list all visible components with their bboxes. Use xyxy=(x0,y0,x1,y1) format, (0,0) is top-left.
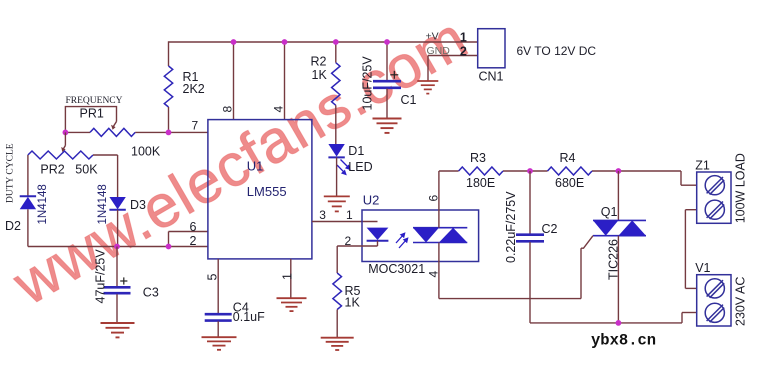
wire Z1 to V1 link xyxy=(685,209,696,211)
wire pin 5 xyxy=(217,259,219,313)
svg-text:ybx8.cn: ybx8.cn xyxy=(591,332,656,350)
wire R3 rail xyxy=(439,170,459,172)
wire U2 pin 6 xyxy=(438,171,440,228)
wire GND to CN1 xyxy=(428,55,478,57)
svg-text:D2: D2 xyxy=(5,219,21,233)
junction PR1 left xyxy=(63,130,69,136)
wire R5 to ground xyxy=(336,310,338,338)
svg-text:U2: U2 xyxy=(363,193,380,208)
svg-text:180E: 180E xyxy=(466,176,495,190)
wire D1 to ground xyxy=(336,157,338,196)
wire Q1 MT1 xyxy=(617,236,619,323)
svg-text:4: 4 xyxy=(272,106,286,113)
connector V1 xyxy=(695,261,747,326)
wire pin 7 node xyxy=(65,131,90,133)
triac Q1 TIC226 xyxy=(581,205,646,280)
junction C1/rail xyxy=(384,39,390,45)
junction C3/rail xyxy=(114,244,120,250)
U2 internal LED xyxy=(367,228,409,248)
svg-text:+V: +V xyxy=(426,31,439,43)
svg-text:47uF/25V: 47uF/25V xyxy=(94,249,108,304)
svg-text:PR1: PR1 xyxy=(80,107,104,121)
svg-text:0.22uF/275V: 0.22uF/275V xyxy=(504,191,518,263)
wire D3 to rail xyxy=(117,210,119,247)
svg-text:DUTY CYCLE: DUTY CYCLE xyxy=(6,143,16,203)
junction R2/rail xyxy=(333,39,339,45)
wire pin 8 xyxy=(233,41,235,119)
svg-text:230V AC: 230V AC xyxy=(733,277,747,326)
ground under C3 xyxy=(101,323,135,337)
svg-text:V1: V1 xyxy=(695,261,710,275)
resistor R4 xyxy=(548,151,593,190)
svg-text:8: 8 xyxy=(221,106,235,113)
svg-text:Q1: Q1 xyxy=(601,205,618,219)
wire pin 6 stub xyxy=(168,232,170,247)
potentiometer PR1 xyxy=(65,107,160,159)
junction pin7/R1 xyxy=(166,130,172,136)
wire PR2 right xyxy=(93,154,118,156)
wire U2 pin 2 xyxy=(377,241,379,246)
capacitor C3 xyxy=(94,247,159,324)
ground under GND pin xyxy=(417,81,438,94)
junction pin8/rail xyxy=(231,39,237,45)
wire pin 3 xyxy=(312,221,378,223)
svg-text:1N4148: 1N4148 xyxy=(37,184,49,224)
svg-text:R4: R4 xyxy=(560,151,576,165)
svg-text:1N4148: 1N4148 xyxy=(97,184,109,224)
wire +V top rail xyxy=(169,41,478,43)
svg-text:2: 2 xyxy=(460,44,467,58)
svg-text:1K: 1K xyxy=(345,296,361,310)
wire bottom rail xyxy=(530,322,682,324)
wire pin 1 xyxy=(290,259,292,298)
svg-text:5: 5 xyxy=(206,274,220,281)
svg-text:LED: LED xyxy=(348,160,372,174)
svg-text:680E: 680E xyxy=(555,176,584,190)
junction Q1/bottom rail xyxy=(616,320,622,326)
diode D2 xyxy=(5,184,49,233)
ground under C1 xyxy=(373,119,402,133)
resistor R3 xyxy=(459,151,503,190)
wire gate rail xyxy=(439,298,581,300)
svg-text:C2: C2 xyxy=(542,222,558,236)
svg-text:R2: R2 xyxy=(311,55,327,69)
capacitor C4 xyxy=(205,301,265,338)
ground under D1 xyxy=(324,196,350,211)
wire R2 to D1 xyxy=(335,105,337,144)
svg-text:D3: D3 xyxy=(130,198,146,212)
resistor R2 xyxy=(311,41,341,105)
svg-text:4: 4 xyxy=(427,271,441,278)
svg-text:7: 7 xyxy=(192,119,199,133)
ground under pin 1 xyxy=(277,298,307,311)
svg-text:R3: R3 xyxy=(470,151,486,165)
capacitor C2 xyxy=(504,171,558,323)
svg-text:1K: 1K xyxy=(312,68,328,82)
svg-text:LM555: LM555 xyxy=(247,184,287,199)
wire U2 pin 4 xyxy=(438,243,440,299)
svg-text:0.1uF: 0.1uF xyxy=(233,310,265,324)
svg-text:2: 2 xyxy=(345,234,352,248)
wire PR2 left to D2 xyxy=(27,155,29,196)
svg-text:1: 1 xyxy=(460,31,467,45)
svg-text:2K2: 2K2 xyxy=(183,82,205,96)
svg-text:100K: 100K xyxy=(131,145,161,159)
svg-text:C3: C3 xyxy=(143,286,159,300)
svg-text:GND: GND xyxy=(427,45,451,57)
opto-triac U2 MOC3021 xyxy=(362,193,479,277)
wire pins 2-6 rail xyxy=(28,246,208,248)
svg-text:PR2: PR2 xyxy=(40,163,64,177)
ground under C4 xyxy=(202,337,237,350)
LED D1 xyxy=(328,144,372,175)
svg-text:10uF/25V: 10uF/25V xyxy=(361,56,375,111)
svg-text:CN1: CN1 xyxy=(479,70,504,84)
junction pin6/rail xyxy=(166,244,172,250)
svg-text:D1: D1 xyxy=(348,144,364,158)
U2 internal triac xyxy=(413,228,467,243)
svg-text:MOC3021: MOC3021 xyxy=(368,262,425,276)
svg-text:C1: C1 xyxy=(401,93,417,107)
svg-text:U1: U1 xyxy=(247,159,264,174)
svg-text:6: 6 xyxy=(190,220,197,234)
junction Q1/rail xyxy=(616,168,622,174)
op-amp U1 LM555 xyxy=(208,120,312,259)
svg-text:3: 3 xyxy=(319,208,326,222)
svg-text:Z1: Z1 xyxy=(695,159,710,173)
svg-text:1: 1 xyxy=(281,273,295,280)
junction C2/rail xyxy=(527,168,533,174)
wire pin 4 xyxy=(284,41,286,119)
svg-text:50K: 50K xyxy=(75,163,98,177)
ground under R5 xyxy=(321,338,354,350)
resistor R1 xyxy=(164,41,204,132)
potentiometer PR2 xyxy=(28,132,98,176)
svg-text:2: 2 xyxy=(190,234,197,248)
connector CN1 xyxy=(460,29,505,84)
wire D2 to rail xyxy=(27,209,29,246)
wire pin 7 xyxy=(135,131,208,133)
wire Q1 MT2 xyxy=(617,171,619,220)
resistor R5 xyxy=(333,273,361,310)
junction pin4/rail xyxy=(282,39,288,45)
diode D3 xyxy=(97,184,146,224)
svg-text:FREQUENCY: FREQUENCY xyxy=(66,96,123,106)
svg-text:6: 6 xyxy=(427,195,441,202)
capacitor C1 xyxy=(361,41,417,118)
watermark www.elecfans.com xyxy=(2,3,479,318)
connector Z1 xyxy=(695,153,747,223)
svg-text:6V TO 12V DC: 6V TO 12V DC xyxy=(517,44,597,58)
svg-text:1: 1 xyxy=(346,208,353,222)
svg-text:100W LOAD: 100W LOAD xyxy=(733,153,747,223)
